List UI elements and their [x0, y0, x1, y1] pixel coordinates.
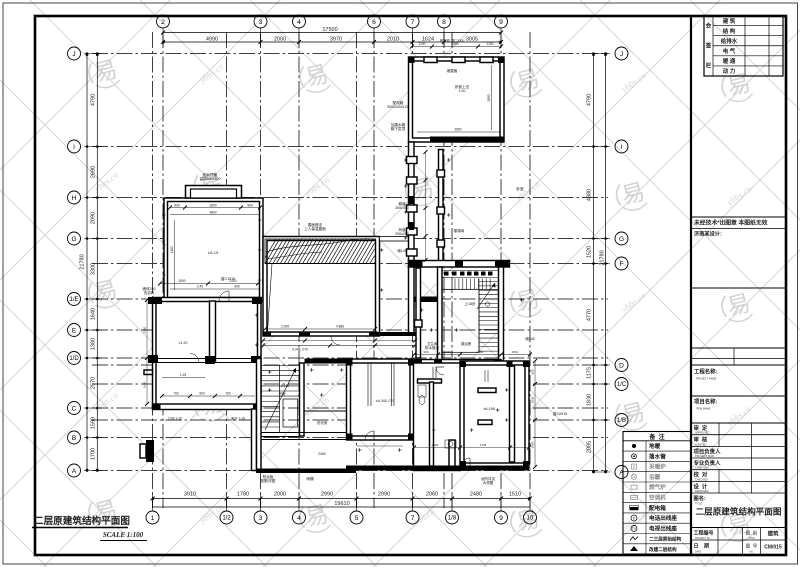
svg-text:1640: 1640 [143, 381, 147, 388]
svg-text:窗C0915: 窗C0915 [553, 411, 567, 416]
svg-text:大样图: 大样图 [483, 480, 494, 485]
svg-text:2990: 2990 [321, 492, 333, 498]
svg-text:2650: 2650 [178, 279, 185, 283]
svg-text:1590: 1590 [91, 417, 97, 429]
svg-text:防水做法: 防水做法 [425, 345, 440, 350]
svg-text:书房: 书房 [278, 391, 286, 396]
svg-text:±A.348 .070: ±A.348 .070 [376, 399, 394, 403]
svg-text:图名:: 图名: [694, 494, 706, 502]
svg-text:改建二层结构: 改建二层结构 [649, 546, 677, 553]
svg-text:CHECKED: CHECKED [695, 477, 708, 481]
svg-text:2090: 2090 [91, 212, 97, 224]
svg-text:8: 8 [442, 19, 446, 26]
svg-text:AUDITED: AUDITED [695, 442, 707, 446]
svg-text:1/8: 1/8 [448, 516, 457, 522]
svg-text:配筋详图: 配筋详图 [261, 478, 276, 483]
svg-text:APPROVED: APPROVED [695, 431, 710, 435]
svg-text:栏: 栏 [706, 62, 712, 70]
svg-text:固定窗 顶C2000: 固定窗 顶C2000 [440, 38, 465, 43]
svg-text:工程编号: 工程编号 [694, 530, 714, 537]
svg-text:配电箱: 配电箱 [649, 504, 666, 512]
svg-text:CHIEF ENG: CHIEF ENG [695, 466, 709, 470]
svg-text:二层原建筑结构平面图: 二层原建筑结构平面图 [696, 506, 782, 517]
svg-text:No.: No. [750, 550, 754, 553]
svg-text:TYPE: TYPE [748, 537, 755, 540]
svg-text:3970: 3970 [330, 37, 342, 43]
svg-text:2690: 2690 [91, 166, 97, 178]
svg-text:地暖: 地暖 [649, 442, 661, 450]
svg-text:电 气: 电 气 [723, 47, 736, 55]
svg-text:2480: 2480 [318, 452, 326, 456]
svg-text:PROJECT NAME: PROJECT NAME [696, 377, 717, 381]
svg-text:9: 9 [499, 19, 503, 26]
svg-text:2.45: 2.45 [197, 285, 203, 289]
svg-text:I: I [73, 144, 75, 151]
svg-text:1380: 1380 [91, 338, 97, 350]
svg-text:雨棚: 雨棚 [306, 476, 314, 481]
svg-text:900: 900 [174, 203, 180, 207]
svg-text:1175: 1175 [587, 367, 593, 379]
svg-text:21780: 21780 [80, 254, 86, 269]
svg-text:1.25: 1.25 [180, 373, 187, 377]
svg-text:19610: 19610 [334, 501, 349, 507]
svg-text:G: G [71, 236, 76, 243]
svg-text:1600: 1600 [432, 443, 439, 447]
svg-text:J: J [620, 51, 623, 58]
svg-text:DESIGNED: DESIGNED [695, 489, 709, 493]
svg-text:坡屋面: 坡屋面 [447, 68, 458, 73]
svg-text:1520: 1520 [587, 246, 593, 258]
svg-text:2085: 2085 [531, 441, 535, 448]
svg-text:21780: 21780 [600, 250, 606, 265]
svg-text:4: 4 [297, 19, 301, 26]
svg-text:暖 通: 暖 通 [723, 57, 736, 65]
svg-text:300x300: 300x300 [395, 206, 409, 210]
svg-text:2060: 2060 [445, 350, 452, 354]
svg-text:4800: 4800 [209, 210, 216, 214]
svg-text:4380: 4380 [587, 189, 593, 201]
svg-text:7: 7 [411, 19, 415, 26]
svg-text:J: J [72, 51, 75, 58]
svg-text:±1.20: ±1.20 [179, 341, 188, 345]
svg-text:1/B: 1/B [617, 418, 626, 424]
svg-text:C: C [72, 405, 77, 412]
svg-text:2000: 2000 [274, 37, 286, 43]
svg-text:会: 会 [706, 22, 712, 30]
svg-text:1745: 1745 [480, 443, 487, 447]
svg-text:CM/015: CM/015 [764, 545, 782, 551]
svg-text:1640: 1640 [91, 308, 97, 320]
svg-text:门厅上空: 门厅上空 [168, 416, 183, 421]
svg-text:3300: 3300 [91, 263, 97, 275]
svg-text:项目名称:: 项目名称: [694, 398, 718, 406]
svg-text:图 别: 图 别 [746, 530, 758, 537]
svg-text:4770: 4770 [587, 309, 593, 321]
svg-text:B: B [72, 435, 76, 442]
svg-text:7: 7 [411, 515, 415, 522]
svg-text:洗衣房: 洗衣房 [317, 420, 328, 425]
svg-text:2160: 2160 [143, 326, 147, 333]
svg-text:T: T [633, 516, 636, 521]
svg-text:箱下层顶: 箱下层顶 [391, 126, 406, 131]
svg-text:1980: 1980 [477, 350, 484, 354]
svg-text:1:20: 1:20 [459, 89, 466, 93]
svg-text:4790: 4790 [91, 94, 97, 106]
svg-text:卧室: 卧室 [516, 186, 524, 191]
svg-text:浴霸: 浴霸 [649, 473, 661, 481]
svg-text:2850: 2850 [487, 94, 491, 101]
svg-text:1/C: 1/C [617, 382, 627, 388]
svg-text:窗C1515: 窗C1515 [221, 276, 235, 281]
svg-text:二层原建筑结构平面图: 二层原建筑结构平面图 [34, 515, 130, 527]
svg-text:DATE: DATE [695, 550, 702, 553]
svg-text:电话出线座: 电话出线座 [649, 514, 677, 522]
svg-text:300x200x120: 300x200x120 [387, 105, 409, 109]
svg-text:结 构: 结 构 [723, 27, 736, 35]
svg-text:±A.19: ±A.19 [208, 250, 219, 255]
svg-text:电视出线座: 电视出线座 [649, 524, 677, 532]
svg-text:250x250: 250x250 [395, 232, 409, 236]
svg-text:工程名称:: 工程名称: [694, 368, 718, 376]
svg-text:1/D: 1/D [69, 356, 79, 362]
svg-text:900: 900 [247, 203, 253, 207]
svg-text:4100: 4100 [170, 246, 174, 253]
svg-text:建 筑: 建 筑 [723, 17, 736, 25]
svg-text:2480: 2480 [470, 492, 482, 498]
svg-text:济南某设计:: 济南某设计: [694, 230, 722, 238]
svg-text:1780: 1780 [237, 492, 249, 498]
svg-text:5: 5 [355, 515, 359, 522]
svg-text:建筑: 建筑 [767, 530, 779, 538]
svg-text:500: 500 [423, 350, 428, 354]
svg-text:淋浴房: 淋浴房 [461, 341, 472, 346]
svg-text:900: 900 [199, 392, 205, 396]
svg-text:上人保温屋面: 上人保温屋面 [304, 226, 326, 231]
svg-text:客厅上空: 客厅上空 [231, 416, 246, 421]
svg-text:10: 10 [527, 516, 534, 522]
svg-text:墙240: 墙240 [525, 336, 535, 341]
svg-text:1: 1 [151, 515, 155, 522]
svg-text:2570: 2570 [91, 377, 97, 389]
svg-text:2000: 2000 [274, 492, 286, 498]
svg-text:动 力: 动 力 [723, 67, 736, 75]
svg-text:±A.198: ±A.198 [483, 407, 494, 411]
svg-text:G: G [619, 236, 624, 243]
svg-text:上18步: 上18步 [464, 301, 476, 306]
svg-text:2990: 2990 [378, 492, 390, 498]
svg-text:F: F [620, 261, 624, 268]
svg-text:1100: 1100 [419, 42, 426, 46]
svg-text:4.348 .070: 4.348 .070 [292, 348, 308, 352]
svg-text:楼梯间: 楼梯间 [454, 228, 465, 233]
svg-text:E: E [72, 327, 77, 334]
svg-text:1510: 1510 [509, 492, 521, 498]
svg-text:SCALE 1:100: SCALE 1:100 [103, 531, 144, 539]
svg-text:空调机: 空调机 [649, 493, 666, 501]
svg-text:落水管: 落水管 [649, 452, 666, 460]
svg-text:燃气炉: 燃气炉 [649, 483, 666, 491]
svg-text:I: I [621, 144, 623, 151]
svg-text:2.008: 2.008 [281, 325, 289, 329]
svg-text:2010: 2010 [387, 37, 399, 43]
svg-text:采暖炉: 采暖炉 [649, 463, 666, 471]
svg-text:1800: 1800 [209, 203, 216, 207]
svg-text:H: H [72, 195, 77, 202]
svg-text:1700: 1700 [91, 448, 97, 460]
svg-text:二三层原始结构: 二三层原始结构 [649, 536, 682, 543]
svg-text:ITEM NAME: ITEM NAME [696, 407, 711, 411]
svg-text:1/2: 1/2 [222, 516, 231, 522]
svg-text:3910: 3910 [184, 492, 196, 498]
svg-text:700: 700 [173, 392, 179, 396]
svg-text:2.178: 2.178 [281, 384, 289, 388]
svg-text:未经技术*出图章 本图纸无效: 未经技术*出图章 本图纸无效 [694, 219, 768, 227]
svg-text:1510: 1510 [512, 350, 519, 354]
svg-text:3: 3 [259, 19, 263, 26]
svg-text:A: A [619, 469, 624, 476]
svg-text:PROJECT No.: PROJECT No. [695, 537, 711, 540]
svg-text:3: 3 [259, 515, 263, 522]
svg-text:墙140: 墙140 [397, 248, 407, 253]
svg-text:签: 签 [705, 42, 712, 50]
svg-text:2: 2 [161, 19, 165, 26]
svg-text:3650: 3650 [454, 128, 461, 132]
svg-text:给排水: 给排水 [721, 37, 738, 45]
svg-text:17500: 17500 [322, 27, 337, 33]
svg-text:D: D [619, 362, 624, 369]
svg-text:1100: 1100 [487, 42, 494, 46]
svg-text:4.888: 4.888 [336, 325, 344, 329]
svg-text:1830: 1830 [587, 394, 593, 406]
svg-text:4990: 4990 [206, 37, 218, 43]
svg-text:日 期: 日 期 [694, 543, 710, 550]
svg-text:A: A [72, 468, 77, 475]
svg-text:900: 900 [234, 285, 240, 289]
svg-text:900: 900 [531, 369, 535, 374]
svg-text:TV: TV [632, 527, 637, 531]
svg-text:3005: 3005 [466, 37, 478, 43]
svg-text:9: 9 [499, 515, 503, 522]
svg-text:2085: 2085 [587, 441, 593, 453]
svg-text:PROJECT MGR: PROJECT MGR [695, 454, 714, 458]
svg-text:4: 4 [297, 515, 301, 522]
svg-text:页岩砖: 页岩砖 [144, 290, 155, 295]
svg-text:留洞400x400: 留洞400x400 [200, 176, 221, 181]
svg-text:1/E: 1/E [69, 297, 78, 303]
svg-text:6: 6 [372, 19, 376, 26]
svg-text:760: 760 [225, 392, 231, 396]
svg-text:备 注: 备 注 [648, 433, 664, 441]
svg-text:4790: 4790 [587, 94, 593, 106]
svg-text:TITLE: TITLE [695, 502, 702, 506]
svg-text:2060: 2060 [426, 492, 438, 498]
svg-text:1830: 1830 [531, 396, 535, 403]
